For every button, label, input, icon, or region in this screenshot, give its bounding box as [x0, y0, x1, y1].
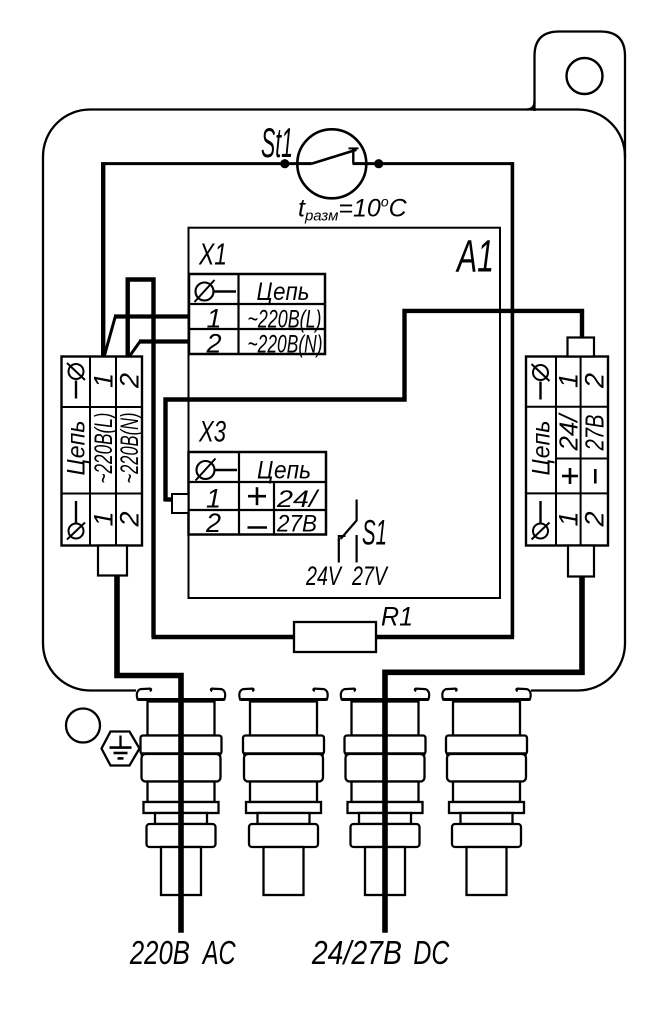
svg-text:X3: X3 — [198, 416, 226, 449]
svg-text:DC: DC — [413, 934, 450, 971]
svg-text:Цепь: Цепь — [257, 457, 311, 485]
svg-text:24/: 24/ — [276, 486, 320, 513]
svg-text:27В: 27В — [276, 511, 317, 538]
svg-text:~220В(L): ~220В(L) — [248, 306, 322, 334]
svg-text:Цепь: Цепь — [257, 278, 310, 306]
svg-text:2: 2 — [114, 511, 144, 527]
svg-text:24V: 24V — [305, 561, 343, 591]
svg-text:2: 2 — [580, 511, 610, 527]
svg-text:2: 2 — [114, 373, 144, 389]
svg-text:2: 2 — [205, 329, 221, 359]
svg-text:220В: 220В — [129, 934, 190, 971]
svg-text:2: 2 — [580, 373, 610, 389]
svg-text:~220В(L): ~220В(L) — [90, 413, 118, 484]
svg-text:Цепь: Цепь — [528, 421, 556, 476]
svg-text:27В: 27В — [579, 415, 609, 452]
svg-text:~220В(N): ~220В(N) — [248, 331, 323, 359]
svg-text:AC: AC — [201, 934, 236, 971]
svg-text:S1: S1 — [362, 514, 387, 553]
svg-text:24/27В: 24/27В — [311, 934, 402, 971]
svg-text:A1: A1 — [455, 231, 494, 282]
svg-text:Цепь: Цепь — [63, 421, 91, 476]
svg-text:27V: 27V — [351, 561, 389, 591]
svg-text:St1: St1 — [261, 119, 293, 166]
svg-text:X1: X1 — [198, 237, 227, 272]
svg-text:~220В(N): ~220В(N) — [116, 413, 144, 484]
svg-text:R1: R1 — [381, 602, 413, 632]
svg-text:2: 2 — [205, 508, 221, 538]
